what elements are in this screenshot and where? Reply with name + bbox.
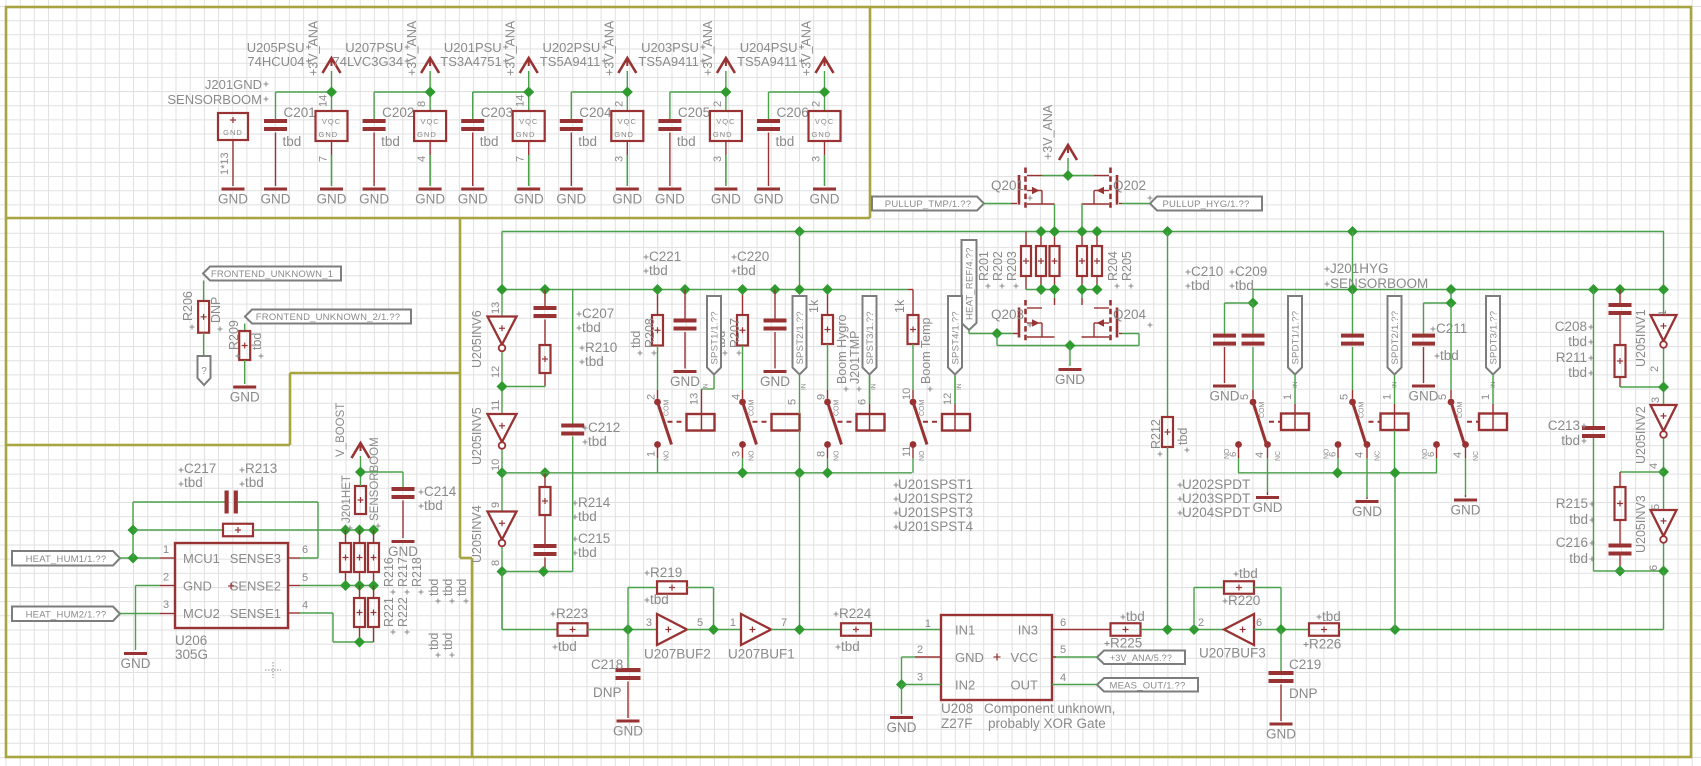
svg-text:U205INV3: U205INV3 xyxy=(1634,495,1648,553)
wire rail2 to C209 C210 node xyxy=(1252,290,1254,304)
wire C211 node to COM3 xyxy=(1450,303,1452,390)
wire SPST1 NO to rail3 xyxy=(657,447,659,473)
section border jog y558 xyxy=(460,557,472,560)
svg-text:GND: GND xyxy=(812,130,832,139)
resistor R226 xyxy=(1304,609,1342,652)
svg-text:+3V_ANA: +3V_ANA xyxy=(602,20,616,76)
wire to C217 xyxy=(133,501,225,503)
capacitor C214 xyxy=(392,484,457,513)
junction rail R203 xyxy=(1049,226,1060,237)
svg-text:GND: GND xyxy=(754,192,784,207)
+3V_ANA supply symbol for U207PSU xyxy=(405,20,439,76)
label SENSORBOOM vertical xyxy=(369,437,381,528)
svg-text:6: 6 xyxy=(1648,565,1660,571)
svg-text:SPST4/1.??: SPST4/1.?? xyxy=(951,311,962,364)
svg-text:R226: R226 xyxy=(1309,637,1341,652)
ground symbol under C201 xyxy=(261,188,291,207)
pin number 2 of U208 xyxy=(917,644,923,656)
svg-text:R211: R211 xyxy=(1556,350,1587,365)
svg-text:tbd: tbd xyxy=(184,475,203,490)
svg-text:2: 2 xyxy=(811,101,823,107)
svg-text:C212: C212 xyxy=(588,420,620,435)
svg-text:tbd: tbd xyxy=(441,579,455,596)
pin number 13 IN of SPST1 xyxy=(689,383,710,405)
svg-text:tbd: tbd xyxy=(1569,512,1588,527)
wire C213 column upper xyxy=(1593,290,1595,427)
capacitor C204 xyxy=(560,105,612,149)
junction rail R202 xyxy=(1035,226,1046,237)
junction rail R204 xyxy=(1076,226,1087,237)
wire C205 to GND xyxy=(669,133,671,187)
wire U208 IN2 pin xyxy=(902,684,942,686)
wire SPDT2/1.?? IN long xyxy=(1394,375,1396,473)
wire SENSE1 to R221 R222 bottoms xyxy=(288,613,374,642)
switch U201SPST4 COM pin xyxy=(901,388,926,416)
wire R205 bottom xyxy=(1096,276,1098,290)
svg-text:tbd: tbd xyxy=(455,579,469,596)
wire rail1 to rail2 HYG column xyxy=(1352,232,1354,290)
junction rail2 R208 xyxy=(652,284,663,295)
svg-text:OUT: OUT xyxy=(1011,678,1039,693)
svg-text:9: 9 xyxy=(816,394,828,400)
wire R220 to BUF3 output xyxy=(1254,588,1281,630)
svg-text:4: 4 xyxy=(416,156,428,162)
svg-text:1k: 1k xyxy=(893,299,907,313)
wire R210 bottom to chain xyxy=(502,373,545,387)
wire Q203 drain up xyxy=(1054,298,1056,305)
switch U202SPDT NC pin xyxy=(1254,441,1282,461)
svg-text:GND: GND xyxy=(261,192,291,207)
wire U204PSU GND pin to ground xyxy=(824,141,826,186)
wire C213 column lower xyxy=(1594,438,1664,571)
pin number 5 of U207BUF2 xyxy=(697,617,703,629)
switch U203SPDT actuator link xyxy=(1369,421,1381,423)
junction at U207PSU VCC node xyxy=(425,86,436,97)
capacitor C210 xyxy=(1186,264,1237,346)
svg-text:GND: GND xyxy=(388,544,418,559)
wire R223 to BUF2 input xyxy=(588,629,658,631)
svg-text:R218: R218 xyxy=(410,557,424,587)
svg-text:12: 12 xyxy=(490,366,502,378)
resistor R225 xyxy=(1105,609,1145,651)
svg-text:tbd: tbd xyxy=(381,134,400,149)
svg-text:tbd: tbd xyxy=(424,498,443,513)
svg-text:NC: NC xyxy=(1473,451,1480,461)
junction rail1-rail2 tie top xyxy=(794,226,805,237)
svg-text:GND: GND xyxy=(810,192,840,207)
wire PULLUP_TMP to Q201 gate xyxy=(984,203,1017,205)
switch U204SPDT COM pin xyxy=(1437,390,1464,418)
svg-text:3: 3 xyxy=(712,156,724,162)
junction node571 xyxy=(1658,565,1669,576)
pin label 1*13 of J201GND xyxy=(219,152,231,175)
junction INV1 out xyxy=(1658,381,1669,392)
wire U202PSU GND pin to ground xyxy=(626,141,628,186)
resistor R220 xyxy=(1223,566,1261,608)
svg-text:C206: C206 xyxy=(777,105,809,120)
junction rail2 C221 xyxy=(679,284,690,295)
svg-text:C202: C202 xyxy=(382,105,414,120)
pin number 4 of U208 xyxy=(1060,672,1066,684)
svg-text:R204: R204 xyxy=(1106,251,1120,281)
resistor R219 xyxy=(645,565,688,607)
wire U208 VCC to flag xyxy=(1052,656,1097,658)
svg-text:1: 1 xyxy=(730,617,736,629)
svg-text:6: 6 xyxy=(857,399,869,405)
svg-text:NO: NO xyxy=(919,450,926,461)
wire HEAT_HUM1 to U206 pin 1 xyxy=(120,557,175,559)
ground symbol under C214 xyxy=(388,540,418,559)
wire chain to meas rail xyxy=(1663,571,1665,630)
junction gate tie xyxy=(991,328,1002,339)
labels tbd tbd of R221 R222 xyxy=(427,633,455,658)
svg-text:SENSORBOOM: SENSORBOOM xyxy=(167,92,262,107)
svg-text:C207: C207 xyxy=(582,306,614,321)
svg-text:GND: GND xyxy=(1253,500,1283,515)
svg-text:7: 7 xyxy=(515,156,527,162)
capacitor C201 xyxy=(264,105,316,149)
capacitor C203 xyxy=(461,105,513,149)
wire U202SPDT NO down xyxy=(1238,447,1240,473)
+3V_ANA supply symbol for U204PSU xyxy=(800,20,834,76)
resistor R204 xyxy=(1077,246,1087,276)
wire U203PSU GND pin to ground xyxy=(725,141,727,186)
wire Q204 gate xyxy=(1119,334,1139,346)
inverter U205INV5 xyxy=(470,407,517,465)
svg-text:SENSORBOOM: SENSORBOOM xyxy=(1330,276,1428,291)
resistor R215 xyxy=(1556,487,1626,527)
svg-text:C220: C220 xyxy=(737,249,769,264)
wire R208 to COM1 xyxy=(657,346,659,391)
capacitor C221 xyxy=(644,249,697,331)
svg-text:R203: R203 xyxy=(1005,251,1019,281)
resistor R211 xyxy=(1556,345,1626,380)
wire C210 to ground xyxy=(1224,347,1226,383)
junction C216 node xyxy=(1614,565,1625,576)
resistor R222 xyxy=(368,598,379,627)
wire SPST2 IN lead long xyxy=(799,375,801,473)
wire U206 GND pin to ground xyxy=(136,586,176,651)
pin number 4 of U207PSU xyxy=(416,156,428,162)
wire U205PSU GND pin to ground xyxy=(331,141,333,186)
svg-text:Q201: Q201 xyxy=(991,178,1024,193)
svg-text:Boom Temp: Boom Temp xyxy=(919,317,933,384)
section border horizontal y373 xyxy=(290,372,460,375)
wire U208 IN3 to R225 xyxy=(1052,629,1111,631)
svg-text:4: 4 xyxy=(731,394,743,400)
ground symbol under C219 xyxy=(1266,723,1296,742)
svg-text:8: 8 xyxy=(816,451,828,457)
switch U201SPST2 arm xyxy=(743,402,757,445)
svg-text:tbd: tbd xyxy=(578,545,597,560)
junction at R213 tap xyxy=(127,524,138,535)
resistor R209 xyxy=(227,320,264,360)
section border vertical x460 xyxy=(459,218,462,558)
junction BUF2 out xyxy=(708,624,719,635)
svg-text:MCU1: MCU1 xyxy=(183,551,220,566)
capacitor C205 xyxy=(658,105,710,149)
wire R219 to BUF2 output xyxy=(687,588,714,630)
pin number 12 IN of SPST4 xyxy=(942,383,963,405)
pin number 5 of U205INV3 xyxy=(1650,504,1662,510)
junction R212 node xyxy=(1162,624,1173,635)
svg-text:VQC: VQC xyxy=(716,117,735,126)
wire Q201 source to rail xyxy=(1054,204,1056,232)
wire C218 to ground xyxy=(627,682,629,719)
origin cross xyxy=(265,662,281,678)
pin number 2 of U205INV1 xyxy=(1649,366,1661,372)
svg-text:GND: GND xyxy=(514,192,544,207)
label U201SPST1-4 xyxy=(894,477,974,534)
wire C202 to GND xyxy=(373,133,375,187)
switch U201SPST4 NO pin xyxy=(901,441,926,461)
svg-text:SPDT2/1.??: SPDT2/1.?? xyxy=(1390,311,1401,365)
junction rail3 R214 column xyxy=(539,467,550,478)
resistor R214 xyxy=(540,487,611,524)
wire rail2 to R207 xyxy=(742,290,744,316)
svg-text:IN: IN xyxy=(703,383,710,390)
svg-text:Q203: Q203 xyxy=(991,307,1024,322)
svg-text:C205: C205 xyxy=(678,105,710,120)
svg-text:U202SPDT: U202SPDT xyxy=(1182,477,1250,492)
net flag SPST3/1.?? xyxy=(863,296,877,375)
switch U201SPST3 NO pin xyxy=(816,441,841,461)
wire node up to C217/R213 xyxy=(132,502,134,558)
svg-text:U208: U208 xyxy=(941,701,973,716)
svg-text:GND: GND xyxy=(955,650,984,665)
svg-text:DNP: DNP xyxy=(209,297,223,323)
junction R218 top xyxy=(368,524,379,535)
svg-text:VQC: VQC xyxy=(815,117,834,126)
IC U204PSU name label xyxy=(737,40,804,69)
wire R203 bottom xyxy=(1054,276,1056,290)
svg-text:U206: U206 xyxy=(175,633,207,648)
svg-text:1: 1 xyxy=(1657,310,1669,316)
svg-text:R221: R221 xyxy=(382,597,396,627)
capacitor C213 xyxy=(1548,418,1605,448)
svg-text:C215: C215 xyxy=(578,531,610,546)
junction rail3b meas xyxy=(1389,467,1400,478)
pin number 6 of U208 xyxy=(1060,617,1066,629)
svg-text:GND: GND xyxy=(1451,503,1481,518)
svg-text:+3V_ANA/5.??: +3V_ANA/5.?? xyxy=(1110,653,1172,663)
svg-text:4: 4 xyxy=(1648,463,1660,469)
svg-text:tbd: tbd xyxy=(776,134,795,149)
svg-text:R215: R215 xyxy=(1556,496,1588,511)
svg-text:R207: R207 xyxy=(728,318,742,348)
svg-text:6: 6 xyxy=(302,544,308,556)
wire R211 to INV1 out xyxy=(1620,377,1664,387)
pin number 3 of U202PSU xyxy=(613,156,625,162)
svg-text:tbd: tbd xyxy=(1322,609,1341,624)
wire R221 R222 tops xyxy=(360,586,374,599)
resistor R210 xyxy=(540,340,618,373)
junction BUF3 out xyxy=(1275,624,1286,635)
wire rail to R201 xyxy=(1025,232,1027,247)
pin number 4 of U206 xyxy=(302,600,308,612)
pin number 8 of U205INV4 xyxy=(490,560,502,566)
svg-text:tbd: tbd xyxy=(677,134,696,149)
switch U201SPST4 actuator link xyxy=(923,421,942,423)
svg-text:U201SPST1: U201SPST1 xyxy=(898,477,973,492)
labels R204 R205 xyxy=(1106,251,1134,288)
svg-text:4: 4 xyxy=(1452,452,1464,458)
svg-text:GND: GND xyxy=(713,130,733,139)
svg-text:GND: GND xyxy=(612,192,642,207)
ground symbol under U207PSU xyxy=(415,188,445,207)
wire R212 to measure node xyxy=(1167,447,1169,630)
wire C221 to ground xyxy=(684,332,686,369)
wire U208 gnd down xyxy=(901,685,903,715)
svg-text:tbd: tbd xyxy=(427,633,441,650)
wire rail2 to C221 xyxy=(684,290,686,319)
svg-text:GND: GND xyxy=(516,130,536,139)
svg-text:COM: COM xyxy=(1259,402,1266,419)
svg-text:?: ? xyxy=(201,366,207,377)
svg-text:U205INV2: U205INV2 xyxy=(1634,406,1648,464)
svg-text:5: 5 xyxy=(787,399,799,405)
svg-text:COM: COM xyxy=(919,400,926,417)
switch U204SPDT actuator link xyxy=(1467,421,1479,423)
resistor R201 xyxy=(1021,246,1031,276)
svg-text:U205PSU: U205PSU xyxy=(247,40,305,55)
wire R225 to BUF3 input xyxy=(1141,629,1225,631)
svg-text:R214: R214 xyxy=(578,495,611,510)
wire U207PSU GND pin to ground xyxy=(429,141,431,186)
svg-text:J201HYG: J201HYG xyxy=(1330,261,1389,276)
ground symbol under U208 xyxy=(887,716,917,735)
junction U208 IN2 gnd xyxy=(896,679,907,690)
capacitor SPDT2 column xyxy=(1341,334,1364,346)
wire R202 bottom xyxy=(1040,276,1042,290)
junction rail1 HYG column xyxy=(1347,226,1358,237)
wire J201HET to R216-R218 xyxy=(346,530,374,543)
wire right chain vertical xyxy=(1663,232,1665,571)
labels tbd tbd tbd of R216-R218 xyxy=(427,579,469,604)
resistor R208 xyxy=(629,315,663,356)
svg-text:U201SPST4: U201SPST4 xyxy=(898,519,974,534)
svg-text:COM: COM xyxy=(749,400,756,417)
svg-text:GND: GND xyxy=(218,192,248,207)
svg-text:GND: GND xyxy=(458,192,488,207)
svg-text:U203SPDT: U203SPDT xyxy=(1182,491,1250,506)
svg-text:14: 14 xyxy=(318,95,330,107)
junction rail2 tie xyxy=(794,284,805,295)
junction R217 bottom xyxy=(354,580,365,591)
svg-text:C201: C201 xyxy=(284,105,316,120)
pin number 1 of U205INV1 xyxy=(1657,310,1669,316)
pin number 7 of U205PSU xyxy=(318,156,330,162)
wire C216 to node571 xyxy=(1619,556,1621,572)
junction rail R205 xyxy=(1091,226,1102,237)
+3V_ANA supply symbol for U201PSU xyxy=(504,20,538,76)
pin 1 IN of U203SPDT xyxy=(1382,381,1399,400)
switch U201SPST2 actuator box xyxy=(772,414,800,431)
junction R218 bottom xyxy=(368,580,379,591)
svg-text:U207BUF3: U207BUF3 xyxy=(1199,646,1266,661)
net flag SPDT1/1.?? xyxy=(1288,296,1302,375)
wire R209 to ground xyxy=(244,360,246,384)
wire U208 OUT to flag xyxy=(1052,684,1097,686)
switch U201SPST2 actuator link xyxy=(753,421,772,423)
resistor R218 xyxy=(368,543,379,572)
junction R203 bottom xyxy=(1049,284,1060,295)
V_BOOST supply arrow xyxy=(352,443,370,458)
switch U201SPST1 arm xyxy=(658,402,672,445)
label V_BOOST vertical xyxy=(335,403,347,457)
switch U201SPST3 COM pin xyxy=(816,390,841,416)
ground symbol mid Q203 Q204 xyxy=(1055,368,1085,387)
svg-text:+3V_ANA: +3V_ANA xyxy=(800,20,814,76)
svg-text:R217: R217 xyxy=(396,557,410,587)
IC U206 body xyxy=(175,543,288,628)
wire rail2 to SPDT2 cap xyxy=(1352,290,1354,334)
wire 1k-4 to COM4 xyxy=(912,344,914,390)
svg-text:probably XOR Gate: probably XOR Gate xyxy=(988,716,1106,731)
wire U202SPDT NC to ground xyxy=(1267,447,1269,495)
svg-text:6: 6 xyxy=(1256,617,1262,629)
svg-text:GND: GND xyxy=(613,724,643,739)
resistor 1k (boom temp pullup) xyxy=(893,299,919,344)
buffer U207BUF1 xyxy=(728,614,795,662)
svg-text:tbd: tbd xyxy=(480,134,499,149)
svg-text:COM: COM xyxy=(1457,402,1464,419)
junction chain INV6 out xyxy=(496,381,507,392)
pin number 2 of U204PSU xyxy=(811,101,823,107)
wire C219 column xyxy=(1280,630,1282,672)
svg-text:C203: C203 xyxy=(481,105,513,120)
wire INV2 out to R215 xyxy=(1620,472,1664,487)
svg-text:tbd: tbd xyxy=(588,434,607,449)
svg-text:R208: R208 xyxy=(643,318,657,348)
inverter U205INV1 xyxy=(1634,309,1677,367)
wire C215 bottom to node xyxy=(544,558,546,572)
resistor R213 xyxy=(223,461,277,536)
svg-text:SPDT3/1.??: SPDT3/1.?? xyxy=(1489,311,1500,365)
pin number 9 of U205INV4 xyxy=(490,502,502,508)
pin number 3 of U208 xyxy=(917,672,923,684)
junction node HEAT_HUM1 xyxy=(127,552,138,563)
svg-text:tbd: tbd xyxy=(737,263,756,278)
wire C214 to ground xyxy=(402,501,404,539)
capacitor C220 xyxy=(732,249,787,331)
svg-text:3: 3 xyxy=(613,156,625,162)
wire HEAT_REF to Q203 gate xyxy=(969,330,1019,334)
svg-text:NO: NO xyxy=(1422,448,1429,459)
svg-text:C204: C204 xyxy=(579,105,612,120)
net flag SPST1/1.?? xyxy=(707,296,721,375)
resistor R207 xyxy=(714,315,748,356)
svg-text:SPDT1/1.??: SPDT1/1.?? xyxy=(1291,311,1302,365)
IC body U204PSU xyxy=(809,111,841,141)
junction R221 bottom xyxy=(354,636,365,647)
svg-text:COM: COM xyxy=(664,400,671,417)
net flag SPDT3/1.?? xyxy=(1486,296,1500,375)
wire meas node up to rail3 xyxy=(1394,473,1396,630)
inverter U205INV4 xyxy=(470,505,517,563)
label component unknown xyxy=(984,701,1115,731)
junction BUF3 feedback in xyxy=(1188,624,1199,635)
svg-text:1: 1 xyxy=(1480,394,1492,400)
svg-text:U203PSU: U203PSU xyxy=(641,40,699,55)
resistor R216 xyxy=(340,543,351,572)
wire C204 to GND xyxy=(570,133,572,187)
svg-text:C218: C218 xyxy=(591,657,623,672)
junction rail2 1k-3 xyxy=(822,284,833,295)
junction rail2 R207 xyxy=(737,284,748,295)
svg-text:3: 3 xyxy=(917,672,923,684)
svg-text:1: 1 xyxy=(1382,394,1394,400)
